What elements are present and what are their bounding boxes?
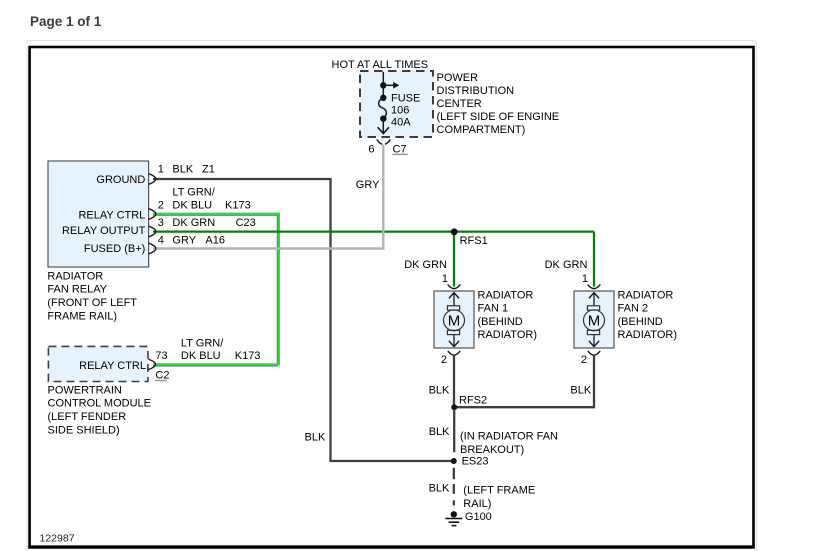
fan 2 motor return arrow — [593, 335, 595, 347]
svg-text:(FRONT OF LEFT: (FRONT OF LEFT — [47, 297, 137, 309]
svg-text:RADIATOR: RADIATOR — [478, 289, 534, 301]
svg-text:C7: C7 — [393, 143, 407, 155]
svg-text:LT GRN/: LT GRN/ — [181, 337, 224, 349]
svg-text:106: 106 — [391, 105, 409, 117]
svg-text:BLK: BLK — [172, 164, 193, 176]
wire LT GRN/DK BLU K173 (relay pin 2 to PCM pin 73) — [153, 214, 279, 365]
junction dot — [380, 95, 386, 101]
svg-text:DK GRN: DK GRN — [172, 217, 215, 229]
svg-text:RADIATOR: RADIATOR — [618, 289, 674, 301]
svg-text:(LEFT FENDER: (LEFT FENDER — [48, 411, 127, 423]
fuse output arrow down — [382, 119, 384, 134]
svg-text:6: 6 — [368, 143, 374, 155]
svg-text:(IN RADIATOR FAN: (IN RADIATOR FAN — [460, 431, 558, 443]
svg-text:RADIATOR): RADIATOR) — [478, 329, 538, 341]
fan 2 pin 2 connector — [588, 351, 600, 355]
svg-text:COMPARTMENT): COMPARTMENT) — [437, 124, 526, 136]
wire DK GRN drop to fan 2 — [593, 232, 595, 287]
wire BLK RFS2 to ES23 — [453, 409, 455, 452]
svg-text:(BEHIND: (BEHIND — [478, 316, 523, 328]
svg-text:POWERTRAIN: POWERTRAIN — [48, 384, 122, 396]
svg-text:RADIATOR: RADIATOR — [47, 270, 103, 282]
svg-text:3: 3 — [158, 217, 164, 229]
wire BLK Z1 (relay pin 1 ground to splice ES23) — [153, 179, 452, 461]
fuse 106 40A element — [379, 98, 387, 119]
svg-text:BLK: BLK — [305, 432, 326, 444]
svg-text:DISTRIBUTION: DISTRIBUTION — [437, 85, 515, 97]
svg-text:BREAKOUT): BREAKOUT) — [460, 444, 524, 456]
relay pin 2 connector — [149, 209, 156, 220]
relay pin 3 connector — [149, 226, 156, 237]
relay box radiator fan relay — [48, 161, 149, 267]
svg-text:FUSED (B+): FUSED (B+) — [84, 243, 145, 255]
ground G100 — [451, 511, 457, 517]
svg-text:CENTER: CENTER — [437, 98, 482, 110]
relay pin 1 connector — [149, 174, 156, 185]
svg-text:G100: G100 — [465, 511, 492, 523]
svg-text:C23: C23 — [236, 217, 256, 229]
svg-text:FRAME RAIL): FRAME RAIL) — [47, 310, 117, 322]
fan 1 motor M1 — [444, 310, 465, 331]
diagram frame border — [30, 47, 754, 547]
svg-text:RELAY OUTPUT: RELAY OUTPUT — [62, 225, 146, 237]
svg-text:Page 1 of 1: Page 1 of 1 — [30, 14, 102, 29]
power distribution center fuse box — [360, 71, 433, 137]
node RFS2 — [451, 404, 457, 410]
powertrain control module box — [48, 346, 147, 381]
fan 2 motor feed arrow — [593, 293, 595, 306]
svg-text:BLK: BLK — [570, 385, 591, 397]
svg-text:40A: 40A — [391, 117, 411, 129]
svg-text:M: M — [588, 313, 601, 330]
fan 1 motor terminal top — [447, 306, 459, 310]
svg-text:2: 2 — [441, 354, 447, 366]
frame bottom thick edge — [28, 545, 754, 548]
svg-text:DK GRN: DK GRN — [545, 259, 588, 271]
svg-text:1: 1 — [582, 273, 588, 285]
svg-text:FAN 1: FAN 1 — [478, 303, 509, 315]
svg-text:122987: 122987 — [40, 533, 75, 545]
svg-text:M: M — [448, 313, 461, 330]
svg-text:RADIATOR): RADIATOR) — [618, 329, 678, 341]
svg-text:2: 2 — [158, 200, 164, 212]
svg-text:FAN 2: FAN 2 — [618, 303, 649, 315]
svg-text:GRY: GRY — [172, 235, 196, 247]
wire DK GRN drop to fan 1 — [453, 232, 455, 287]
svg-text:POWER: POWER — [437, 72, 479, 84]
PCM pin connector — [148, 359, 155, 370]
svg-text:SIDE SHIELD): SIDE SHIELD) — [48, 424, 120, 436]
svg-text:FAN RELAY: FAN RELAY — [47, 284, 107, 296]
wire BLK fan 1 return — [453, 355, 455, 405]
radiator fan 1 motor box — [434, 291, 474, 348]
fan 2 pin 1 connector — [588, 284, 601, 288]
svg-text:RELAY CTRL: RELAY CTRL — [79, 360, 146, 372]
junction dot — [380, 82, 386, 88]
wire DK GRN C23 (relay pin 3 to fans) — [153, 230, 594, 232]
fan 2 motor terminal top — [587, 306, 599, 310]
svg-text:BLK: BLK — [429, 482, 450, 494]
svg-text:DK GRN: DK GRN — [404, 259, 447, 271]
svg-text:(LEFT SIDE OF ENGINE: (LEFT SIDE OF ENGINE — [437, 111, 560, 123]
fan 2 motor terminal bottom — [587, 330, 599, 334]
svg-text:BLK: BLK — [429, 426, 450, 438]
fan 1 motor terminal bottom — [447, 330, 459, 334]
svg-text:2: 2 — [581, 354, 587, 366]
svg-text:GROUND: GROUND — [96, 174, 145, 186]
svg-text:DK BLU: DK BLU — [181, 350, 221, 362]
svg-text:(BEHIND: (BEHIND — [618, 316, 663, 328]
fuse feed wire — [382, 72, 384, 98]
svg-text:K173: K173 — [225, 200, 251, 212]
svg-text:RAIL): RAIL) — [463, 498, 491, 510]
svg-text:1: 1 — [158, 164, 164, 176]
svg-text:C2: C2 — [155, 370, 169, 382]
svg-text:RFS2: RFS2 — [459, 395, 487, 407]
svg-text:4: 4 — [158, 235, 164, 247]
relay pin 4 connector — [149, 243, 156, 254]
fan 1 motor feed arrow — [453, 293, 455, 306]
wire LT GRN/DK BLU K173 blue tracer — [153, 215, 277, 366]
svg-text:GRY: GRY — [356, 179, 380, 191]
svg-text:ES23: ES23 — [462, 456, 489, 468]
svg-text:FUSE: FUSE — [391, 93, 420, 105]
wire GRY A16 (fuse C7 to relay pin 4) — [153, 145, 383, 249]
junction dot — [380, 115, 386, 121]
wire BLK fan 2 return — [457, 355, 595, 408]
svg-text:LT GRN/: LT GRN/ — [172, 187, 215, 199]
fan 1 pin 2 connector — [448, 351, 460, 355]
fan 1 pin 1 connector — [448, 284, 461, 288]
svg-text:Z1: Z1 — [202, 164, 215, 176]
svg-text:BLK: BLK — [429, 385, 450, 397]
node RFS1 — [451, 228, 458, 235]
splice ES23 — [451, 458, 457, 464]
svg-text:CONTROL MODULE: CONTROL MODULE — [48, 398, 152, 410]
svg-text:K173: K173 — [235, 350, 261, 362]
connector C7 — [377, 140, 391, 145]
svg-text:HOT AT ALL TIMES: HOT AT ALL TIMES — [332, 59, 429, 71]
svg-text:RFS1: RFS1 — [460, 235, 488, 247]
svg-text:73: 73 — [155, 350, 167, 362]
svg-text:DK BLU: DK BLU — [172, 200, 212, 212]
svg-text:(LEFT FRAME: (LEFT FRAME — [463, 484, 535, 496]
branch arrow right — [383, 84, 394, 86]
svg-text:A16: A16 — [205, 235, 225, 247]
radiator fan 2 motor box — [574, 291, 614, 348]
fan 2 motor M2 — [584, 310, 605, 331]
svg-text:1: 1 — [442, 273, 448, 285]
fan 1 motor return arrow — [453, 335, 455, 347]
svg-text:RELAY CTRL: RELAY CTRL — [78, 210, 145, 222]
wire BLK ES23 to ground (dashed) — [453, 468, 455, 480]
